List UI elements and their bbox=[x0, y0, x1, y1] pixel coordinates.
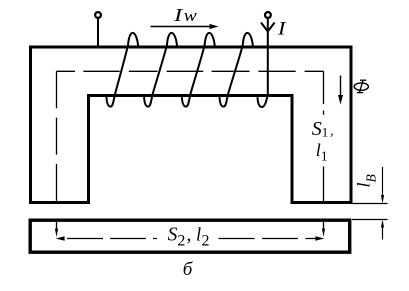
svg-text:I: I bbox=[173, 5, 184, 25]
svg-text:I: I bbox=[277, 20, 287, 40]
svg-text:S2,l2: S2,l2 bbox=[168, 225, 210, 250]
svg-text:б: б bbox=[183, 259, 194, 280]
svg-text:l1: l1 bbox=[316, 140, 328, 164]
svg-text:w: w bbox=[184, 6, 197, 25]
svg-text:lB: lB bbox=[354, 174, 379, 187]
svg-text:S1,: S1, bbox=[312, 118, 334, 140]
